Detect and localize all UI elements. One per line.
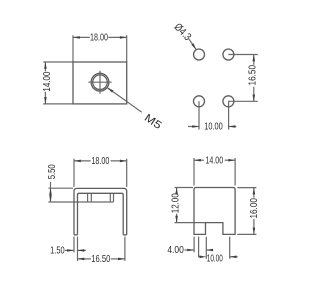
svg-text:10.00: 10.00 xyxy=(207,254,223,265)
svg-text:16.50: 16.50 xyxy=(91,254,110,265)
svg-text:14.00: 14.00 xyxy=(42,71,53,91)
svg-text:18.00: 18.00 xyxy=(91,156,109,167)
svg-text:16.00: 16.00 xyxy=(249,198,260,219)
svg-text:16.50: 16.50 xyxy=(248,65,259,86)
svg-text:1.50: 1.50 xyxy=(50,246,65,257)
svg-text:14.00: 14.00 xyxy=(205,155,223,166)
svg-text:10.00: 10.00 xyxy=(204,122,223,133)
svg-text:18.00: 18.00 xyxy=(90,33,108,44)
svg-text:4.00: 4.00 xyxy=(167,245,184,256)
svg-text:5.50: 5.50 xyxy=(47,164,58,179)
svg-text:12.00: 12.00 xyxy=(170,193,181,213)
